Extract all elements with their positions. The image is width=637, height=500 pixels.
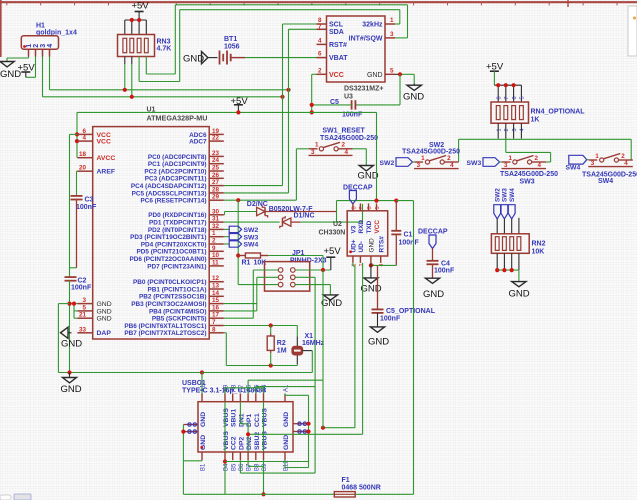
wire SW1 to ground [353,148,367,150]
capacitor C2 100nF [65,276,77,278]
pin 4 RST# of U3 [317,43,327,45]
svg-text:100nF: 100nF [434,268,455,275]
wire DN1 through connector to DN2 [239,402,241,424]
wire JP1 pin4 down right side [295,276,315,278]
wire A1 GND inner loop to B12 [284,394,286,396]
svg-text:3: 3 [417,162,421,169]
wire U2 GND pin3 to ground [370,263,372,278]
wire C5 right lead to U3 GND net [399,74,401,105]
svg-text:H1: H1 [36,23,45,30]
net flag SW4 at switch SW4 [569,155,587,164]
wire SDA vertical to U1 PC5 [288,29,290,193]
wire net SDA horizontal rail y=89.8 [50,89,289,91]
pin 7 SDA of U3 [317,28,327,30]
wire JP1 pin3 to U1 PB4 [257,276,279,278]
svg-text:PB6 (PCINT6XTAL1TOSC1): PB6 (PCINT6XTAL1TOSC1) [124,323,206,330]
wire B9 VBUS down [263,460,265,494]
wire RN3 pin2 down to SCL rail [131,57,133,65]
wire U1 PB6 to crystal [224,325,297,327]
ground symbol GND near H1 [28,57,30,59]
pin A5 CC1 top of USBC1 [255,394,257,402]
popup panel top-right corner [628,6,637,56]
pin 31 PD1 (TXDPCINT17) of U1 [209,221,224,223]
svg-text:21: 21 [79,312,87,319]
svg-text:25: 25 [212,165,220,172]
pin A8 SBU1 top of USBC1 [232,394,234,402]
wire RN3 pin4 to DS3231 INT#/SQW [145,57,147,75]
svg-text:SW1_RESET: SW1_RESET [322,128,365,135]
svg-text:GND: GND [97,308,112,315]
pin A7 DN1 top of USBC1 [239,394,241,402]
pin B4 VBUS bottom of USBC1 [224,452,226,460]
svg-text:SW3: SW3 [467,160,482,167]
svg-text:SW4: SW4 [566,165,581,172]
svg-text:PC5 (ADC5SCLPCINT13): PC5 (ADC5SCLPCINT13) [132,190,207,197]
pin 21 GND of U1 [77,317,92,319]
svg-text:PD1 (TXDPCINT17): PD1 (TXDPCINT17) [149,220,207,227]
svg-text:8: 8 [212,326,216,333]
svg-text:AREF: AREF [97,169,116,176]
svg-text:DN2: DN2 [246,436,253,450]
svg-text:8: 8 [351,206,357,209]
svg-text:3: 3 [311,149,315,156]
svg-text:3: 3 [40,44,47,48]
svg-text:CH330N: CH330N [319,230,346,237]
pin 5 GND of U1 [77,310,92,312]
wire U2 UD- down to DN2 [362,263,364,434]
svg-text:1: 1 [509,155,513,162]
svg-text:INT#/SQW: INT#/SQW [349,35,383,42]
pin 16 PB4 (PCINT4MISO) of U1 [209,310,224,312]
svg-text:4: 4 [538,162,542,169]
svg-text:C4: C4 [441,261,450,268]
wire reset vertical to R1 and JP1 row3 [237,200,239,284]
svg-text:TSA245G00D-250: TSA245G00D-250 [402,149,460,156]
svg-text:4: 4 [318,37,322,44]
wire JP1 pin1 to U1 PB5 [253,269,278,271]
wire U1 GND pins 5 21 tie [73,304,75,319]
svg-text:SW2: SW2 [495,188,502,202]
svg-text:1: 1 [26,44,33,48]
wire JP1 pin6 to ground [295,284,330,286]
svg-text:28: 28 [212,186,220,193]
browser ui fragments bottom-left corner [0,495,11,500]
pin 27 PC4 (ADC4SDAPCINT12) of U1 [209,185,224,187]
wire flag SW3 to switch [500,161,503,163]
svg-text:TSA245G00D-250: TSA245G00D-250 [320,135,378,142]
svg-text:SCL: SCL [329,22,344,29]
svg-text:GND: GND [403,92,424,103]
svg-text:C5_OPTIONAL: C5_OPTIONAL [386,308,436,315]
svg-text:16: 16 [212,304,220,311]
svg-text:16MHz: 16MHz [302,340,325,347]
svg-text:+5V: +5V [132,1,150,12]
wire +5V rail horizontal y=112.4 [77,111,377,113]
wire F1 to U2 VCC net vertical [355,493,413,495]
svg-text:4: 4 [345,149,349,156]
pin 25 PC2 (ADC2PCINT10) of U1 [209,170,224,172]
svg-text:RST#: RST# [329,42,347,49]
wire flag SW4 to switch [587,159,589,161]
pin 1 32kHz of U3 [385,23,395,25]
svg-text:U1: U1 [147,107,156,114]
svg-text:1: 1 [315,142,319,149]
svg-text:PD7 (PCINT23AIN1): PD7 (PCINT23AIN1) [147,263,206,270]
wire H1 pin4 to SDA rail [49,57,51,90]
svg-text:RN2: RN2 [532,241,546,248]
shield pins left of USBC1 [183,424,198,426]
resistor network RN3 4.7K [118,35,155,57]
wire R1 to +5V at JP1 [268,255,323,257]
svg-text:GND: GND [97,301,112,308]
svg-text:TSA245G00D-250: TSA245G00D-250 [500,171,558,178]
wire RN4 bus to switches y=139.3 [459,138,632,140]
ground symbol GND at C5_OPTIONAL [370,327,384,332]
svg-text:C1: C1 [404,232,413,239]
wire C1 bottom to U2 GND [395,234,397,265]
wire USBC1 A12 GND to ground rail [201,373,203,394]
svg-text:31: 31 [212,216,220,223]
wire RN3 pin1 down to SDA rail [124,57,126,65]
wire VCC pin6 branch to left vertical [70,133,78,135]
pin A1 GND top of USBC1 [284,394,286,402]
svg-text:0468 500NR: 0468 500NR [342,485,381,492]
svg-text:U3: U3 [344,94,353,101]
pin 4 RTS# bottom of U2 [380,256,382,263]
pin 17 PB5 (SCKPCINT5) of U1 [209,317,224,319]
svg-text:RXD: RXD [358,220,365,234]
wire U2 UD+ down to junction [352,263,354,266]
pin 4 VCC of U1 [77,140,92,142]
pin B1 GND bottom of USBC1 [201,452,203,460]
wire U3 GND pin5 to ground [395,73,400,75]
svg-text:PD0 (RXDPCINT16): PD0 (RXDPCINT16) [148,212,206,219]
svg-text:1: 1 [595,153,599,160]
pin 14 PB2 (PCINT2SSOC1B) of U1 [209,295,224,297]
svg-text:PD6 (PCINT22OC0AAIN0): PD6 (PCINT22OC0AAIN0) [129,256,206,263]
wire C3 lower lead down [76,200,78,268]
pin 5 VCC top of U2 [376,203,378,210]
svg-text:1: 1 [496,128,502,131]
wire VBUS top pins bus [224,388,226,394]
pin 32 PD2 (INT0PCINT18) of U1 [209,228,224,230]
svg-text:12: 12 [212,275,220,282]
svg-text:JP1: JP1 [292,250,305,257]
pin A9 VBUS top of USBC1 [224,394,226,402]
svg-text:CC1: CC1 [254,413,261,427]
svg-text:4: 4 [82,135,86,142]
svg-text:VBUS: VBUS [223,408,230,427]
pin 2 UD- bottom of U2 [359,256,361,263]
wire U1 PB7 to crystal [224,332,227,334]
svg-text:C3: C3 [85,197,94,204]
pin B5 CC2 bottom of USBC1 [232,452,234,460]
wire right outer loop to DP2 [314,387,316,474]
svg-text:GND: GND [61,384,82,395]
wire RN4 to SW2 [458,139,460,162]
svg-text:B8: B8 [254,463,260,471]
pin A4 VBUS top of USBC1 [263,394,265,402]
wire B7 DN2 jog [247,460,249,466]
svg-text:UD-: UD- [358,241,365,252]
svg-text:R2: R2 [277,340,286,347]
svg-text:2: 2 [447,155,451,162]
svg-text:5: 5 [82,304,86,311]
svg-text:10: 10 [212,252,220,259]
pin 3 GND of U1 [77,303,92,305]
svg-text:20: 20 [79,165,87,172]
svg-text:5: 5 [390,67,394,74]
wire VBUS through connector body [224,402,226,452]
svg-text:33: 33 [79,326,87,333]
pin 9 PD5 (PCINT21OC0BT1) of U1 [209,250,224,252]
svg-text:3: 3 [504,162,508,169]
pin B6 DP2 bottom of USBC1 [239,452,241,460]
svg-text:ATMEGA328P-MU: ATMEGA328P-MU [147,114,208,123]
svg-text:VCC: VCC [329,72,344,79]
wires RN2 bottom pins to ground [496,253,498,270]
svg-text:RN3: RN3 [157,39,171,46]
frame left border line [0,0,2,57]
svg-text:9: 9 [212,245,216,252]
svg-text:PD4 (PCINT20XCKT0): PD4 (PCINT20XCKT0) [141,241,207,248]
pin 13 PB1 (PCINT1OC1A) of U1 [209,288,224,290]
svg-text:2: 2 [535,155,539,162]
svg-text:26: 26 [212,172,220,179]
svg-text:TXD: TXD [366,220,373,233]
svg-text:DP2: DP2 [238,437,245,450]
wire C2 bottom to GND pins and ground rail [69,281,71,373]
wire AREF to C3 [76,170,79,172]
svg-text:13: 13 [212,283,220,290]
svg-text:3: 3 [512,128,518,131]
svg-text:SW3: SW3 [520,179,535,186]
svg-text:VBUS: VBUS [262,431,269,450]
svg-text:ADC7: ADC7 [189,139,207,146]
wire U1 PB3 MOSI [224,303,257,305]
svg-text:GND: GND [367,72,383,79]
ground symbol GND at JP1 [323,295,337,300]
pin 2 VCC of U3 [317,73,327,75]
capacitor C3 100nF [71,195,83,197]
pin 1 PD3 (PCINT19OC2BINT1) of U1 [209,236,224,238]
net flag SW3 at U1 PD3 [224,236,229,238]
pin 7 RXD top of U2 [359,203,361,210]
svg-text:PC0 (ADC0PCINT8): PC0 (ADC0PCINT8) [148,154,207,161]
svg-text:PB7 (PCINT7XTAL2TOSC2): PB7 (PCINT7XTAL2TOSC2) [124,330,206,337]
svg-text:F1: F1 [342,477,350,484]
svg-text:GND: GND [369,238,376,253]
pin 33 DAP of U1 [77,332,92,334]
svg-text:PB1 (PCINT1OC1A): PB1 (PCINT1OC1A) [148,286,207,293]
wire U3 VCC to +5V rail [312,73,317,75]
pin 10 PD6 (PCINT22OC0AAIN0) of U1 [209,258,224,260]
ground symbol GND at RN2 [512,282,526,287]
pin 8 V3 top of U2 [352,203,354,210]
svg-text:6: 6 [318,51,322,58]
wires RN2 top pins [496,219,498,234]
wire JP1 pin2 to +5V [295,269,331,271]
wire U2 VCC node horizontal [337,200,397,202]
ground symbol GND at C4 [425,278,439,283]
svg-text:2: 2 [342,142,346,149]
net flag SW4 at U1 PD4 [224,243,229,245]
svg-text:PD2 (INT0PCINT18): PD2 (INT0PCINT18) [148,227,207,234]
svg-text:100nF: 100nF [380,316,401,323]
pin 19 ADC6 of U1 [209,133,224,135]
wire RN4 pin2 to SW3 [505,139,507,153]
svg-text:B5: B5 [231,463,237,471]
svg-text:+5V: +5V [324,246,342,257]
svg-text:SW2: SW2 [244,227,259,234]
rtc U3 DS3231MZ+ [327,16,386,82]
svg-text:5: 5 [520,96,526,99]
svg-text:4: 4 [450,162,454,169]
svg-text:3: 3 [390,31,394,38]
svg-text:6: 6 [367,206,373,209]
svg-text:32: 32 [212,223,220,230]
svg-text:SW3: SW3 [502,188,509,202]
ground symbol GND at U3 pin5 [407,85,421,90]
svg-text:PB5 (SCKPCINT5): PB5 (SCKPCINT5) [152,316,207,323]
ground symbol GND at U2 [364,278,378,283]
wire +5V rail down to U2 VCC [376,112,378,200]
pin B12 GND bottom of USBC1 [284,452,286,460]
svg-text:SW2: SW2 [380,160,395,167]
svg-text:7: 7 [359,206,365,209]
svg-text:RN4_OPTIONAL: RN4_OPTIONAL [531,109,586,116]
pin 6 TXD top of U2 [368,203,370,210]
wire B1 GND loop to F1 line [201,459,203,462]
svg-text:GND: GND [200,412,207,427]
pin 3 GND bottom of U2 [370,256,372,263]
pin 12 PB0 (PCINT0CLKOICP1) of U1 [209,281,224,283]
wire jog to C2 top [70,267,77,269]
pin 7 PB6 (PCINT6XTAL1TOSC1) of U1 [209,325,224,327]
pin 6 VCC of U1 [77,133,92,135]
svg-text:14: 14 [212,290,220,297]
wire inner bottom bus [225,461,309,463]
pin 2 PD4 (PCINT20XCKT0) of U1 [209,243,224,245]
svg-text:+5V: +5V [18,63,36,74]
svg-text:1K: 1K [531,117,540,124]
svg-text:24: 24 [212,157,220,164]
svg-text:DECCAP: DECCAP [343,185,373,192]
svg-text:GND: GND [283,435,290,450]
svg-text:GND: GND [361,284,382,295]
svg-text:1: 1 [390,17,394,24]
svg-text:2: 2 [318,67,322,74]
svg-text:VBUS: VBUS [223,431,230,450]
svg-text:DP1: DP1 [246,414,253,427]
wire D2 cathode to U2 side vertical [265,211,337,213]
wire D1 cathode to U2 RXD [291,221,300,223]
svg-text:BT1: BT1 [224,36,237,43]
wire RN3 pin3 to DS3231 32kHz [138,57,140,82]
svg-text:4.7K: 4.7K [157,46,172,53]
svg-text:R1: R1 [242,260,251,267]
capacitor C1 100nF [395,201,397,231]
junction dot U3 GND / C5 [398,72,402,76]
svg-text:100nF: 100nF [76,204,97,211]
svg-text:DS3231MZ+: DS3231MZ+ [344,86,384,93]
svg-text:3: 3 [82,297,86,304]
svg-text:C2: C2 [78,278,87,285]
wire BT1 plus to DS3231 VBAT [245,57,317,59]
svg-text:5: 5 [375,206,381,209]
svg-text:100nF: 100nF [399,240,420,247]
wire left shield vertical to fuse line [182,425,184,495]
ground symbol GND on rail [69,373,71,378]
svg-text:29: 29 [212,194,220,201]
svg-text:GND: GND [368,337,389,348]
svg-text:4: 4 [47,44,54,48]
svg-text:7: 7 [212,319,216,326]
svg-text:U2: U2 [333,221,342,228]
svg-text:CC2: CC2 [231,436,238,450]
svg-text:GND: GND [423,289,444,300]
svg-text:UD+: UD+ [351,239,358,252]
pin 20 AREF of U1 [77,170,92,172]
svg-text:X1: X1 [305,333,314,340]
svg-text:22: 22 [212,135,220,142]
pin B9 VBUS bottom of USBC1 [263,452,265,460]
pin A12 GND top of USBC1 [201,394,203,402]
svg-text:32kHz: 32kHz [362,22,383,29]
pin 26 PC3 (ADC3PCINT11) of U1 [209,177,224,179]
svg-text:1056: 1056 [224,44,240,51]
svg-text:10K: 10K [532,249,545,256]
wire RN4 pins down [497,123,499,138]
ground symbol GND at SW1 [359,166,373,171]
svg-text:7: 7 [318,23,322,30]
pin 15 PB3 (PCINT3OC2AMOSI) of U1 [209,303,224,305]
power symbol +5V near H1 [35,57,37,78]
svg-text:GND: GND [321,298,342,309]
pin 8 SCL of U3 [317,23,327,25]
switch SW3 TSA245G00D-250 [502,161,511,163]
resistor R1 10K [238,255,245,257]
svg-text:RTS#: RTS# [378,236,385,253]
svg-text:PB0 (PCINT0CLKOICP1): PB0 (PCINT0CLKOICP1) [133,279,207,286]
wire CC1 to JP1 pin4 vertical [255,387,257,394]
svg-text:23: 23 [212,150,220,157]
svg-text:PC4 (ADC4SDAPCINT12): PC4 (ADC4SDAPCINT12) [131,183,207,190]
svg-text:PC1 (ADC1PCINT9): PC1 (ADC1PCINT9) [148,161,207,168]
svg-text:V3: V3 [351,225,358,233]
wire C5 left lead to +5V vertical [312,104,352,106]
svg-text:B1: B1 [201,463,207,471]
svg-text:SW4: SW4 [244,242,259,249]
resistor network RN2 10K [491,234,529,254]
junction dots on +5V vertical at C5 [310,103,314,107]
pin 3 INT#/SQW of U3 [385,37,395,39]
frame ruler tick marks [7,2,617,5]
pin 22 ADC7 of U1 [209,140,224,142]
svg-text:SW3: SW3 [244,234,259,241]
wire +5V rail down to U1 VCC pins [76,112,78,157]
pin 28 PC5 (ADC5SCLPCINT13) of U1 [209,192,224,194]
wire fuse line [183,493,334,495]
svg-text:PB4 (PCINT4MISO): PB4 (PCINT4MISO) [149,308,207,315]
wire U1 PD1 to D1 [224,221,280,223]
wire crystal right lead to ground rail [302,350,312,352]
svg-text:DN1: DN1 [238,413,245,427]
ground symbol GND at DAP pin [68,332,72,334]
svg-text:2: 2 [33,44,40,48]
svg-text:GND: GND [358,171,379,182]
svg-text:VBUS: VBUS [262,408,269,427]
